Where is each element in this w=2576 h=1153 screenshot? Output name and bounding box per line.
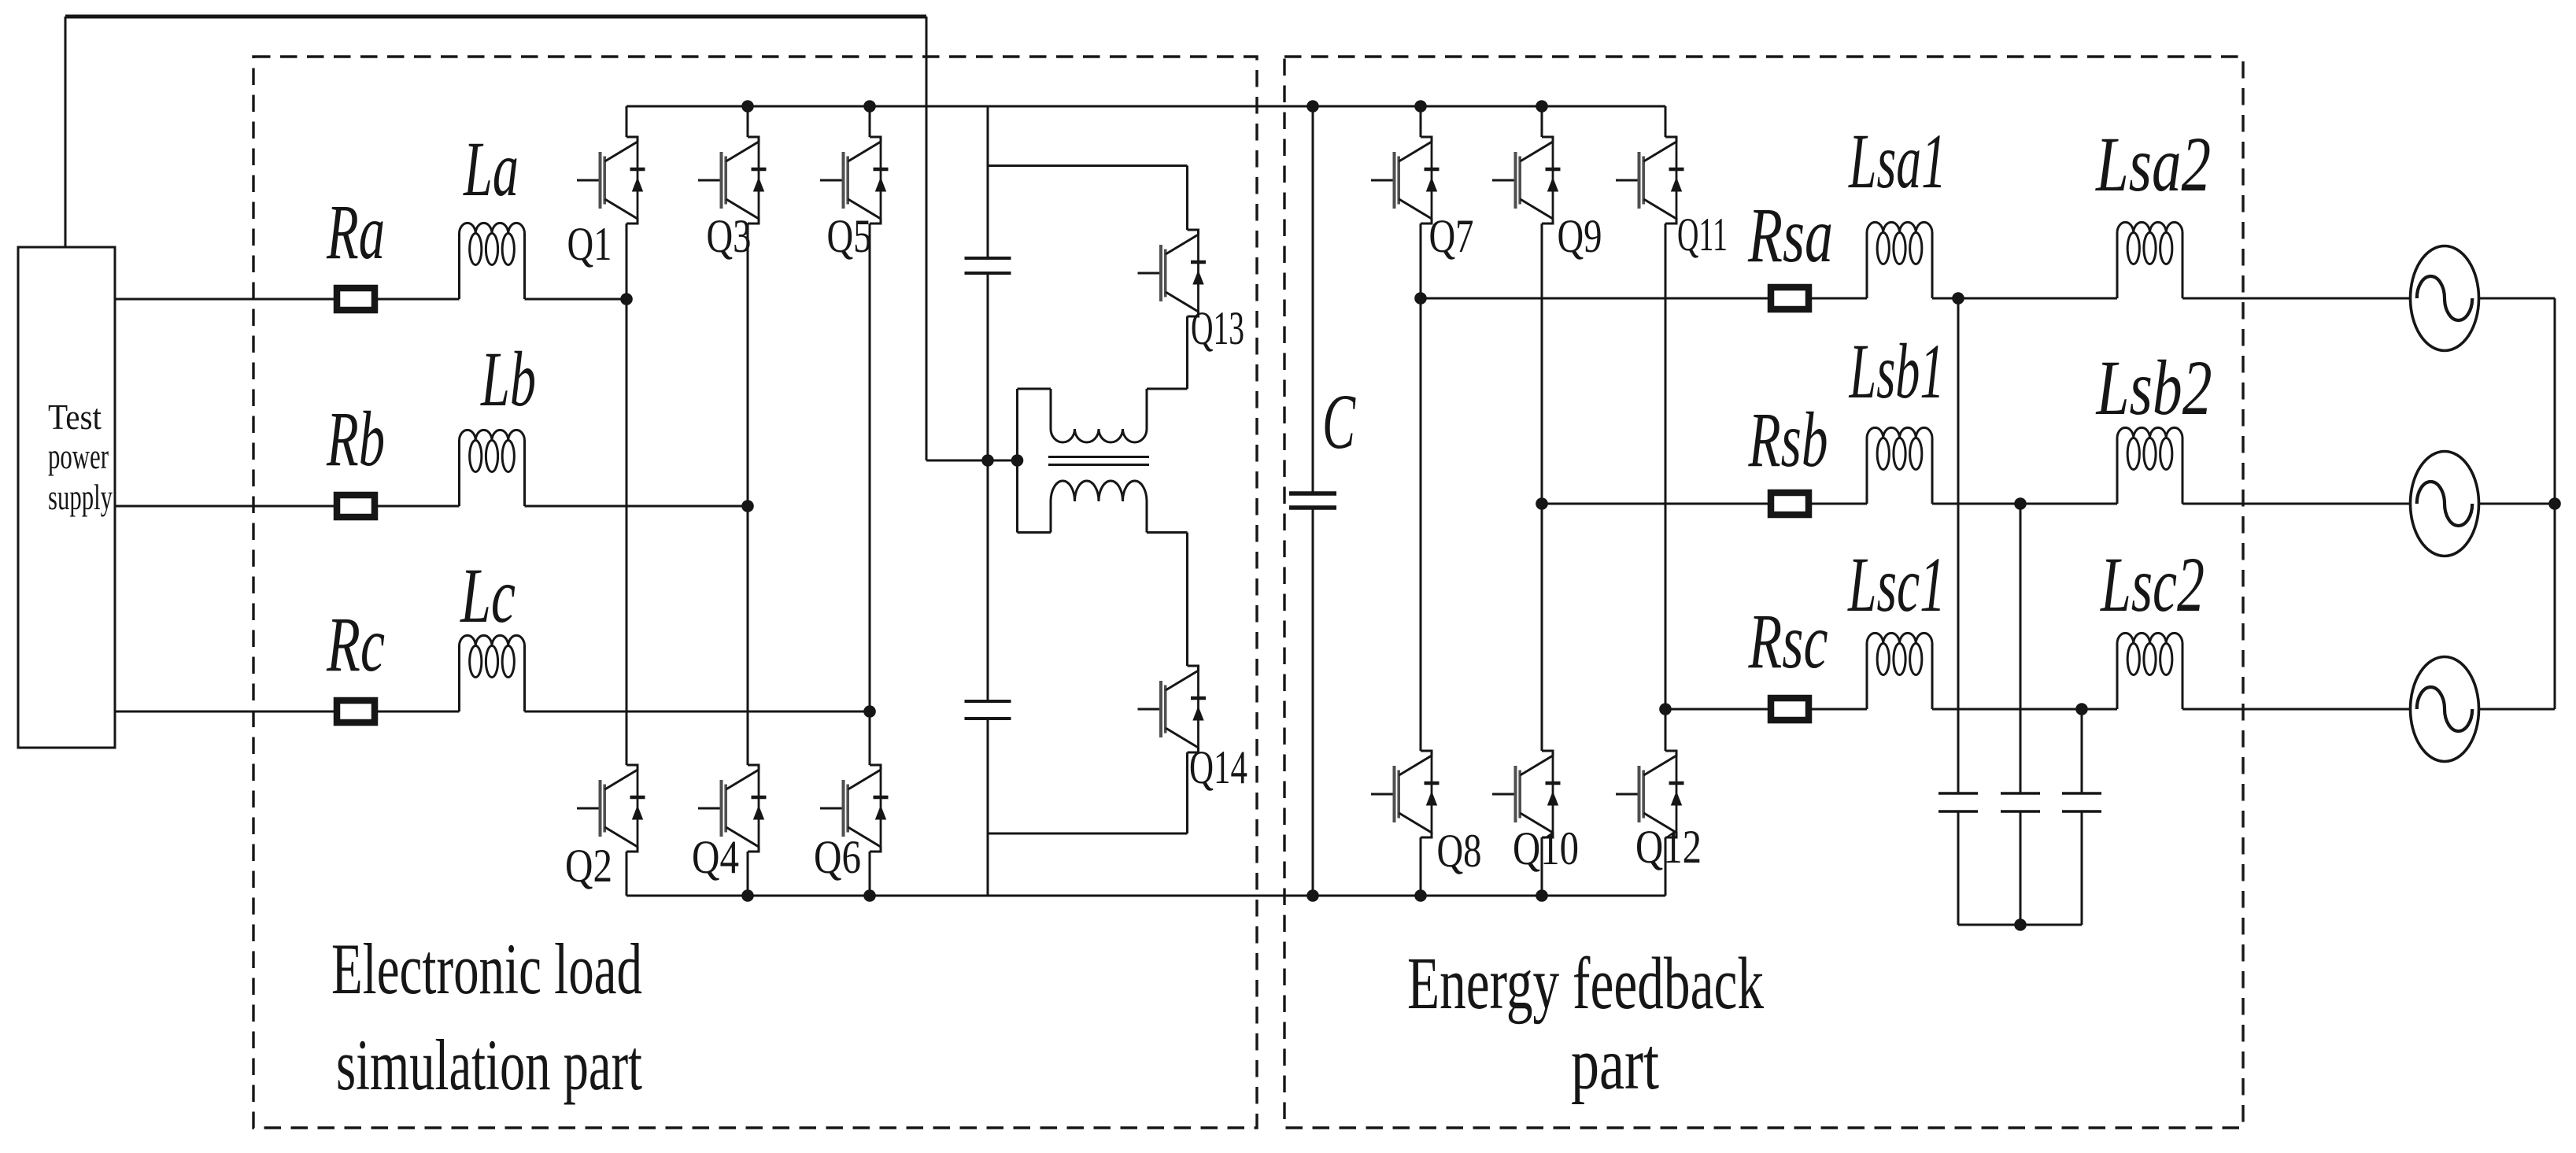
node snubber column / tap bbox=[981, 454, 994, 467]
node phase b feedback bbox=[1536, 497, 1548, 510]
svg-text:Lsc2: Lsc2 bbox=[2100, 541, 2205, 628]
node bus bottom Q8 bbox=[1414, 889, 1427, 902]
wire Q1 collector bbox=[626, 106, 628, 137]
transistor Q13 bbox=[1138, 230, 1207, 316]
wire snubber column upper bbox=[987, 106, 989, 258]
wire Q4 collector bbox=[747, 506, 749, 765]
transistor Q11 bbox=[1616, 137, 1684, 224]
node bus top Q3 bbox=[741, 100, 754, 113]
resistor Ra bbox=[337, 288, 375, 310]
node filter star bbox=[2014, 918, 2027, 931]
svg-text:Q1: Q1 bbox=[567, 218, 612, 270]
node bus top Q7 bbox=[1414, 100, 1427, 113]
svg-text:Q8: Q8 bbox=[1437, 825, 1482, 877]
wire Q5 emitter bbox=[869, 224, 871, 711]
wire Q10 collector bbox=[1541, 504, 1543, 751]
svg-text:Rsc: Rsc bbox=[1748, 597, 1828, 685]
wire Lsc1 to node bbox=[1932, 708, 2082, 711]
wire filter a lower bbox=[1957, 811, 1960, 925]
wire cap C upper bbox=[1312, 106, 1314, 493]
node bus bottom Q6 bbox=[863, 889, 876, 902]
svg-text:Lsa1: Lsa1 bbox=[1848, 117, 1946, 205]
wire Q4 emitter bbox=[747, 852, 749, 896]
dashed box: Energy feedback part bbox=[1284, 57, 2243, 1128]
svg-text:simulation part: simulation part bbox=[336, 1025, 642, 1105]
capacitor filter c bbox=[2062, 793, 2101, 811]
svg-text:Lsb1: Lsb1 bbox=[1848, 327, 1944, 415]
inductor Lsc2 bbox=[2117, 633, 2182, 709]
wire Q7 collector bbox=[1420, 106, 1422, 137]
transistor Q9 bbox=[1492, 137, 1561, 224]
resistor Rsb bbox=[1771, 493, 1809, 515]
wire snubber column lower bbox=[987, 719, 989, 896]
svg-text:La: La bbox=[463, 125, 519, 212]
svg-text:Ra: Ra bbox=[326, 188, 385, 275]
wire Lsb2 to source bbox=[2182, 503, 2411, 505]
wire phase C from supply bbox=[115, 711, 460, 713]
transformer primary-side vertical bbox=[1016, 389, 1018, 533]
wire Q3 collector bbox=[747, 106, 749, 137]
svg-text:Energy feedback: Energy feedback bbox=[1407, 943, 1764, 1025]
wire node to Lsc2 bbox=[2082, 708, 2117, 711]
wire source a to neutral bbox=[2478, 297, 2555, 300]
svg-text:Lsa2: Lsa2 bbox=[2094, 120, 2211, 208]
svg-text:Q4: Q4 bbox=[692, 831, 739, 883]
inductor Lsa2 bbox=[2117, 222, 2182, 298]
wire Q14 emitter bbox=[1186, 752, 1188, 833]
node bus top Q9 bbox=[1536, 100, 1548, 113]
wire phase B to bridge bbox=[525, 505, 748, 508]
wire Q14 return bbox=[988, 833, 1188, 835]
wire phase A to bridge bbox=[525, 298, 627, 301]
inductor Lsb2 bbox=[2117, 427, 2182, 504]
wire Q7 emitter bbox=[1420, 224, 1422, 298]
transistor Q12 bbox=[1616, 751, 1684, 837]
ac source phase a bbox=[2411, 246, 2479, 351]
wire Q6 collector bbox=[869, 711, 871, 765]
dashed box: Electronic load simulation part bbox=[253, 57, 1257, 1128]
node bus bottom Q10 bbox=[1536, 889, 1548, 902]
inductor Lb bbox=[460, 430, 525, 506]
transformer top-right lead bbox=[1147, 388, 1188, 390]
wire feeder left vertical bbox=[65, 17, 67, 247]
svg-text:Q14: Q14 bbox=[1189, 741, 1247, 793]
node transformer primary tap bbox=[1011, 454, 1024, 467]
svg-text:Rc: Rc bbox=[326, 601, 385, 688]
wire phase b to Rsb bbox=[1542, 503, 1768, 505]
wire phase C to bridge bbox=[525, 711, 870, 713]
resistor Rb bbox=[337, 495, 375, 517]
wire filter c vertical bbox=[2081, 709, 2083, 793]
wire Q2 collector bbox=[626, 299, 628, 765]
inductor La bbox=[460, 223, 525, 299]
svg-text:Q6: Q6 bbox=[814, 831, 861, 883]
node phase C bridge bbox=[863, 705, 876, 718]
svg-text:Rsb: Rsb bbox=[1748, 396, 1828, 483]
wire phase A from supply bbox=[115, 298, 460, 301]
svg-text:Lc: Lc bbox=[460, 552, 516, 639]
wire Rsc to Lsc1 bbox=[1812, 708, 1867, 711]
wire filter a vertical bbox=[1957, 298, 1960, 793]
capacitor filter b bbox=[2001, 793, 2040, 811]
wire positive dc bus bbox=[626, 105, 1665, 108]
svg-text:Q3: Q3 bbox=[707, 210, 752, 262]
resistor Rsa bbox=[1771, 287, 1809, 309]
wire Lsa2 to source bbox=[2182, 297, 2411, 300]
svg-text:Q11: Q11 bbox=[1677, 209, 1728, 261]
wire source b to neutral bbox=[2478, 503, 2555, 505]
wire phase a to Rsa bbox=[1421, 297, 1768, 300]
wire Lsb1 to node bbox=[1932, 503, 2020, 505]
wire Q9 emitter bbox=[1541, 224, 1543, 504]
svg-text:power: power bbox=[48, 436, 109, 476]
ac source phase c bbox=[2411, 657, 2479, 762]
wire Rsb to Lsb1 bbox=[1812, 503, 1867, 505]
transformer core bbox=[1048, 457, 1149, 465]
wire Q11 emitter bbox=[1665, 224, 1667, 709]
transformer bottom-left lead bbox=[1018, 531, 1051, 534]
transformer lower winding bbox=[1051, 481, 1147, 533]
wire Q13 collector bbox=[1186, 166, 1188, 231]
wire node to Lsb2 bbox=[2020, 503, 2117, 505]
wire Rsa to Lsa1 bbox=[1812, 297, 1867, 300]
capacitor snubber upper bbox=[965, 258, 1011, 273]
wire source c to neutral bbox=[2478, 708, 2555, 711]
ac source phase b bbox=[2411, 452, 2479, 556]
wire Q14 collector bbox=[1186, 533, 1188, 667]
wire Q10 emitter bbox=[1541, 837, 1543, 896]
test power supply box bbox=[18, 247, 115, 748]
transistor Q14 bbox=[1138, 666, 1207, 752]
inductor Lsb1 bbox=[1867, 427, 1932, 504]
inductor Lc bbox=[460, 635, 525, 711]
transformer upper winding bbox=[1051, 389, 1147, 442]
wire Q6 emitter bbox=[869, 852, 871, 896]
node bus bottom cap C bbox=[1306, 889, 1319, 902]
inductor Lsa1 bbox=[1867, 222, 1932, 298]
wire feeder to transformer tap bbox=[926, 460, 1018, 462]
svg-text:Q2: Q2 bbox=[565, 840, 612, 892]
wire Q2 emitter bbox=[626, 852, 628, 896]
wire Q9 collector bbox=[1541, 106, 1543, 137]
wire Q3 emitter bbox=[747, 224, 749, 506]
node a filter bbox=[1952, 292, 1964, 305]
wire phase B from supply bbox=[115, 505, 460, 508]
svg-text:Test: Test bbox=[48, 397, 102, 437]
wire Q5 collector bbox=[869, 106, 871, 137]
svg-text:Q10: Q10 bbox=[1513, 822, 1579, 874]
svg-text:Lsb2: Lsb2 bbox=[2095, 344, 2212, 431]
resistor Rsc bbox=[1771, 698, 1809, 720]
svg-text:part: part bbox=[1571, 1023, 1659, 1105]
wire Q8 collector bbox=[1420, 298, 1422, 751]
capacitor C bbox=[1289, 493, 1336, 508]
transistor Q8 bbox=[1371, 751, 1440, 837]
wire node to Lsa2 bbox=[1958, 297, 2117, 300]
wire phase c to Rsc bbox=[1665, 708, 1768, 711]
wire Lsc2 to source bbox=[2182, 708, 2411, 711]
transistor Q1 bbox=[577, 137, 645, 224]
transistor Q2 bbox=[577, 765, 645, 852]
transformer top-left lead bbox=[1018, 388, 1051, 390]
transistor Q10 bbox=[1492, 751, 1561, 837]
transistor Q6 bbox=[820, 765, 889, 852]
wire Q8 emitter bbox=[1420, 837, 1422, 896]
wire top feeder horizontal bbox=[65, 15, 926, 19]
svg-text:Lsc1: Lsc1 bbox=[1847, 541, 1946, 628]
transistor Q3 bbox=[698, 137, 767, 224]
node bus bottom Q4 bbox=[741, 889, 754, 902]
node phase A bridge bbox=[620, 293, 633, 305]
wire Q1 emitter bbox=[626, 224, 628, 299]
transformer bottom-right lead bbox=[1147, 531, 1188, 534]
wire filter star bus bbox=[1958, 924, 2082, 926]
svg-text:supply: supply bbox=[48, 477, 113, 517]
svg-text:C: C bbox=[1322, 378, 1356, 465]
node bus top cap C bbox=[1306, 100, 1319, 113]
node neutral b bbox=[2548, 497, 2561, 510]
wire cap C lower bbox=[1312, 508, 1314, 896]
wire snubber column middle bbox=[987, 273, 989, 701]
resistor Rc bbox=[337, 700, 375, 722]
svg-text:Q7: Q7 bbox=[1429, 210, 1474, 262]
node c filter bbox=[2075, 703, 2088, 715]
svg-text:Rb: Rb bbox=[326, 395, 385, 482]
wire Q13 emitter bbox=[1186, 316, 1188, 389]
svg-text:Q5: Q5 bbox=[827, 210, 872, 262]
capacitor snubber lower bbox=[965, 701, 1011, 719]
svg-text:Q9: Q9 bbox=[1558, 210, 1602, 262]
wire Q11 collector bbox=[1665, 106, 1667, 137]
svg-text:Q12: Q12 bbox=[1635, 821, 1702, 873]
wire negative dc bus bbox=[626, 895, 1665, 897]
node phase a feedback bbox=[1414, 292, 1427, 305]
node bus top Q5 bbox=[863, 100, 876, 113]
wire Q12 emitter bbox=[1665, 837, 1667, 896]
transistor Q5 bbox=[820, 137, 889, 224]
wire Q12 collector bbox=[1665, 709, 1667, 751]
transistor Q7 bbox=[1371, 137, 1440, 224]
capacitor filter a bbox=[1938, 793, 1978, 811]
node phase B bridge bbox=[741, 500, 754, 512]
svg-text:Rsa: Rsa bbox=[1747, 191, 1833, 279]
node phase c feedback bbox=[1659, 703, 1672, 715]
inductor Lsc1 bbox=[1867, 633, 1932, 709]
wire feeder right vertical bbox=[926, 17, 928, 460]
wire filter c lower bbox=[2081, 811, 2083, 925]
svg-text:Lb: Lb bbox=[480, 335, 536, 423]
wire filter b vertical bbox=[2020, 504, 2022, 793]
wire neutral vertical bbox=[2554, 298, 2556, 709]
wire snubber to Q13 bbox=[988, 164, 1188, 167]
wire filter b lower bbox=[2020, 811, 2022, 925]
node b filter bbox=[2014, 497, 2027, 510]
svg-text:Q13: Q13 bbox=[1191, 302, 1244, 354]
wire Lsa1 to node bbox=[1932, 297, 1958, 300]
svg-text:Electronic load: Electronic load bbox=[331, 929, 642, 1009]
transistor Q4 bbox=[698, 765, 767, 852]
